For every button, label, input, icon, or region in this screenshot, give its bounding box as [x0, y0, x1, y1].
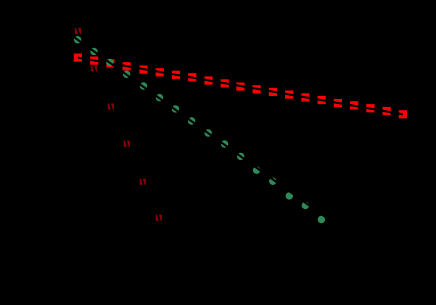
marker: red square series A point 5: [156, 68, 164, 76]
marker: dark red square series B point 2: [108, 103, 114, 109]
marker: green circle series C point 12: [269, 178, 276, 185]
marker: green circle series C point 9: [221, 140, 228, 147]
marker: green circle series C point 2: [106, 59, 113, 66]
line: black trend line over series B: [77, 26, 160, 222]
marker: red square series A point 19: [383, 107, 391, 115]
marker: red square series A point 4: [139, 66, 147, 74]
marker: green circle series C point 14: [302, 202, 309, 209]
marker: red square series A point 17: [350, 101, 358, 109]
marker: dark red square series B point 1: [91, 65, 97, 71]
marker: red square series A point 0: [74, 54, 82, 62]
marker: green circle series C point 11: [253, 167, 260, 174]
marker: red square series A point 8: [204, 76, 212, 84]
marker: green circle series C point 5: [156, 94, 163, 101]
marker: red square series A point 6: [172, 71, 180, 79]
marker: red square series A point 20: [399, 110, 407, 118]
marker: green circle series C point 6: [172, 105, 179, 112]
marker: red square series A point 2: [106, 59, 114, 67]
marker: green circle series C point 3: [123, 71, 130, 78]
marker: red square series A point 3: [123, 62, 131, 70]
marker: red square series A point 14: [301, 93, 309, 101]
marker: green circle series C point 7: [188, 117, 195, 124]
marker: red square series A point 13: [285, 91, 293, 99]
marker: red square series A point 1: [90, 57, 98, 65]
line: black trend line over series C: [58, 26, 340, 228]
marker: dark red square series B point 5: [156, 215, 162, 221]
marker: red square series A point 18: [366, 104, 374, 112]
marker: red square series A point 7: [188, 73, 196, 81]
marker: red square series A point 10: [236, 83, 244, 91]
marker: red square series A point 11: [253, 85, 261, 93]
marker: green circle series C point 13: [286, 192, 293, 199]
marker: green circle series C point 1: [90, 48, 97, 55]
marker: green circle series C point 10: [237, 153, 244, 160]
marker: dark red square series B point 4: [140, 179, 146, 185]
marker: red square series A point 16: [334, 99, 342, 107]
marker: red square series A point 9: [221, 79, 229, 87]
marker: green circle series C point 0: [74, 36, 81, 43]
line: black trend line over series A: [78, 58, 403, 115]
marker: green circle series C point 15: [318, 216, 325, 223]
marker: green circle series C point 8: [205, 129, 212, 136]
marker: dark red square series B point 0: [75, 28, 81, 34]
marker: green circle series C point 4: [140, 82, 147, 89]
marker: dark red square series B point 3: [124, 141, 130, 147]
marker: red square series A point 12: [269, 88, 277, 96]
marker: red square series A point 15: [318, 96, 326, 104]
